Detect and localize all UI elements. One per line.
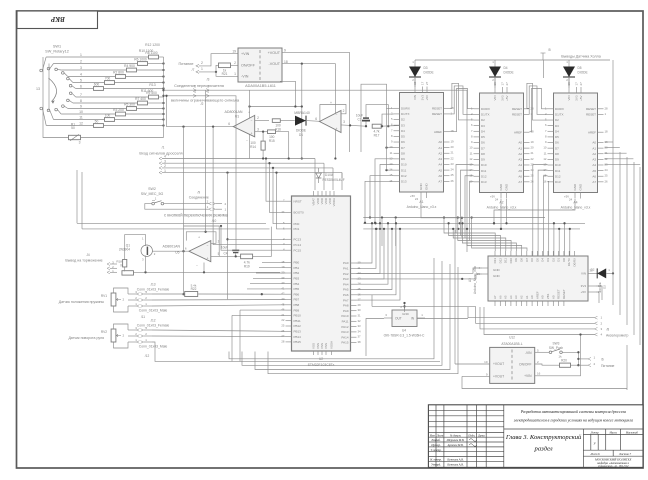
svg-text:SW_Rotary12: SW_Rotary12: [45, 50, 69, 54]
svg-text:Н. контр.: Н. контр.: [429, 458, 442, 461]
svg-text:D0/RX: D0/RX: [481, 107, 490, 111]
IC A1 Arduino_Nano_v3.x: [400, 93, 444, 193]
svg-text:D4: D4: [541, 258, 545, 262]
svg-text:VIN: VIN: [413, 95, 417, 100]
svg-text:R5 300: R5 300: [124, 103, 135, 107]
svg-text:4: 4: [164, 155, 166, 159]
svg-text:Вход сигналов дросселя: Вход сигналов дросселя: [139, 152, 182, 156]
switch contact / wire line 8: [67, 99, 70, 102]
wire y=106.5 aux: [250, 106, 302, 108]
svg-text:/3: /3: [207, 78, 210, 82]
svg-text:18: 18: [605, 130, 609, 134]
svg-text:24: 24: [495, 198, 499, 202]
PA side wires going up to buses: [357, 223, 373, 263]
svg-text:VIN: VIN: [581, 272, 586, 276]
svg-text:10: 10: [389, 145, 393, 149]
switch contact / wire line 6: [69, 84, 72, 87]
svg-text:D1/TX: D1/TX: [567, 258, 571, 266]
svg-text:A1: A1: [525, 295, 529, 299]
U4 OUT wire: [366, 319, 384, 357]
svg-text:D5: D5: [578, 66, 582, 70]
svg-text:Conn_01x03_Female: Conn_01x03_Female: [137, 288, 170, 292]
svg-text:A0: A0: [541, 295, 545, 299]
U5 feedback loop: [186, 232, 216, 244]
svg-text:Датчик поворота руля: Датчик поворота руля: [68, 336, 104, 340]
svg-text:D9: D9: [514, 258, 518, 262]
svg-text:GND: GND: [505, 183, 509, 191]
svg-text:14: 14: [358, 282, 362, 286]
svg-text:D10: D10: [509, 258, 513, 264]
svg-text:D5: D5: [535, 258, 539, 262]
svg-text:AD8001AN: AD8001AN: [225, 110, 243, 114]
svg-text:30: 30: [358, 308, 362, 312]
svg-text:−: −: [196, 264, 198, 268]
vertical x=213: [212, 125, 214, 127]
svg-text:D12: D12: [555, 174, 561, 178]
svg-text:D11: D11: [555, 169, 561, 173]
IC A4 Arduino_Nano_v3.x: [554, 93, 598, 193]
svg-text:22: 22: [451, 156, 455, 160]
svg-text:ON/OFF: ON/OFF: [241, 64, 256, 68]
svg-text:8: 8: [80, 99, 82, 103]
svg-text:20: 20: [531, 146, 535, 150]
svg-text:GND: GND: [499, 183, 503, 191]
svg-text:38: 38: [358, 340, 362, 344]
svg-text:PESD5V0L4UF: PESD5V0L4UF: [323, 178, 345, 182]
svg-text:18: 18: [284, 60, 288, 64]
svg-text:12: 12: [79, 122, 83, 126]
svg-text:PD0: PD0: [294, 222, 300, 226]
svg-text:D2: D2: [555, 118, 559, 122]
right side verticals: [612, 60, 614, 305]
svg-text:GND: GND: [419, 183, 423, 191]
svg-text:26: 26: [605, 179, 609, 183]
svg-text:PB5: PB5: [294, 287, 300, 291]
horizontal feeds y 159-173 right portion: [341, 173, 343, 178]
svg-text:1: 1: [234, 72, 236, 76]
svg-text:600: 600: [94, 83, 100, 87]
svg-text:Литер: Литер: [590, 431, 600, 434]
wire from reset bus down: [466, 251, 468, 253]
svg-text:17: 17: [575, 82, 579, 86]
wire y=90.2: [162, 89, 164, 91]
svg-text:14: 14: [389, 168, 393, 172]
PB pin wires: [262, 261, 286, 263]
svg-text:R15: R15: [269, 139, 275, 143]
A2 D10-D13 wires down-left: [456, 165, 474, 234]
svg-text:A7: A7: [438, 180, 442, 184]
PSU module U6 ADA00A1B5-L611: [238, 48, 282, 82]
svg-text:7: 7: [80, 93, 82, 97]
svg-text:D3: D3: [481, 124, 485, 128]
svg-text:A2: A2: [499, 201, 503, 205]
wire below U5: [203, 263, 205, 273]
svg-text:2: 2: [80, 60, 82, 64]
svg-text:10: 10: [79, 110, 83, 114]
PC13 wire from 227.5: [226, 238, 228, 240]
svg-text:5: 5: [80, 79, 82, 83]
svg-text:−: −: [246, 139, 248, 143]
svg-text:D7: D7: [555, 146, 559, 150]
svg-text:6: 6: [228, 122, 230, 126]
resistor R21 1k: [216, 65, 219, 72]
svg-text:PA1: PA1: [343, 267, 349, 271]
svg-text:A4: A4: [518, 163, 522, 167]
svg-text:/7: /7: [192, 68, 195, 72]
svg-text:PA10: PA10: [341, 314, 348, 318]
svg-text:R14: R14: [250, 145, 256, 149]
svg-text:34: 34: [358, 329, 362, 333]
svg-text:1: 1: [201, 67, 203, 71]
svg-text:PB13: PB13: [294, 330, 302, 334]
PC15 wire: [220, 225, 222, 227]
svg-text:Масса: Масса: [608, 431, 617, 434]
svg-text:19: 19: [232, 50, 236, 54]
svg-text:PB15: PB15: [294, 340, 302, 344]
svg-text:Вывод на торможение: Вывод на торможение: [65, 259, 102, 263]
svg-text:D10: D10: [481, 163, 487, 167]
svg-text:Conn_01x03_Male: Conn_01x03_Male: [139, 309, 168, 313]
outer loop box U5: [184, 226, 220, 256]
svg-text:A6: A6: [518, 174, 522, 178]
svg-text:+VIN: +VIN: [524, 374, 532, 378]
svg-text:U5: U5: [175, 250, 179, 254]
svg-text:ATA00A1B5-L: ATA00A1B5-L: [501, 342, 522, 346]
svg-text:U1: U1: [235, 115, 239, 119]
svg-text:D5: D5: [401, 135, 405, 139]
svg-text:19: 19: [531, 140, 535, 144]
svg-text:39: 39: [281, 276, 285, 280]
svg-text:20: 20: [451, 145, 455, 149]
svg-text:D12: D12: [481, 174, 487, 178]
svg-text:D4: D4: [504, 66, 508, 70]
svg-text:13: 13: [36, 87, 40, 91]
svg-text:1: 1: [194, 85, 196, 89]
svg-text:PA13: PA13: [341, 330, 348, 334]
svg-text:41: 41: [281, 286, 285, 290]
svg-text:17: 17: [501, 82, 505, 86]
svg-text:A2: A2: [592, 152, 596, 156]
svg-text:16: 16: [389, 179, 393, 183]
svg-text:22: 22: [531, 157, 535, 161]
svg-text:D5: D5: [555, 135, 559, 139]
svg-text:R12 1200: R12 1200: [145, 43, 160, 47]
svg-text:+VOUT: +VOUT: [493, 362, 504, 366]
resistor R19 4.7k: [241, 254, 253, 259]
svg-text:10uF: 10uF: [221, 246, 228, 250]
svg-text:A2: A2: [438, 151, 442, 155]
svg-text:R17: R17: [374, 134, 380, 138]
svg-text:1: 1: [207, 90, 209, 94]
A1 bottom stubs to verticals: [421, 198, 462, 237]
svg-text:D2: D2: [401, 118, 405, 122]
svg-text:24: 24: [415, 197, 419, 201]
svg-text:D13: D13: [401, 180, 407, 184]
svg-text:15: 15: [358, 287, 362, 291]
svg-text:AD8001AN: AD8001AN: [162, 245, 180, 249]
svg-text:+5V: +5V: [581, 290, 586, 294]
nested staircase corners into A3 top: [444, 218, 495, 252]
svg-text:11: 11: [79, 116, 83, 120]
svg-text:OUT: OUT: [395, 317, 402, 321]
svg-text:DIODE: DIODE: [504, 71, 514, 75]
svg-text:D3: D3: [424, 66, 428, 70]
svg-text:Питание: Питание: [601, 364, 614, 368]
svg-text:AREF: AREF: [434, 130, 442, 134]
svg-text:+: +: [336, 127, 338, 131]
svg-text:PB0: PB0: [294, 261, 300, 265]
svg-text:700: 700: [105, 77, 111, 81]
svg-text:DIODE: DIODE: [578, 71, 588, 75]
switch contact / wire line 11: [47, 109, 50, 112]
svg-text:12: 12: [543, 157, 547, 161]
svg-text:PA7: PA7: [343, 298, 349, 302]
svg-text:R7 400: R7 400: [135, 97, 146, 101]
resistor R14 vertical: [262, 132, 264, 142]
svg-text:PC14: PC14: [294, 243, 302, 247]
svg-text:SW_MEC_5G: SW_MEC_5G: [141, 192, 164, 196]
svg-text:Архипов М.В.: Архипов М.В.: [447, 444, 464, 447]
PA3/PA4 wires to A3 GND: [357, 268, 483, 273]
op-amp U2: [320, 111, 342, 133]
svg-text:D4: D4: [481, 129, 485, 133]
svg-text:VBAT: VBAT: [312, 198, 316, 206]
svg-text:42: 42: [281, 292, 285, 296]
svg-text:DIODE: DIODE: [296, 129, 306, 133]
serial jog wires A2-A4: [530, 89, 548, 132]
svg-text:PB1: PB1: [294, 266, 300, 270]
svg-text:/10: /10: [212, 219, 217, 223]
svg-text:A3: A3: [518, 158, 522, 162]
svg-text:D1/TX: D1/TX: [481, 113, 490, 117]
svg-text:PA11: PA11: [342, 320, 349, 324]
wires RV2 pins right: [152, 330, 286, 331]
svg-text:PB7: PB7: [294, 298, 300, 302]
svg-text:10: 10: [484, 360, 488, 364]
A4 D10-D13 wires down to A3 top pins: [533, 165, 548, 257]
svg-text:21: 21: [531, 151, 535, 155]
svg-text:A0: A0: [438, 140, 442, 144]
svg-text:5.4k: 5.4k: [191, 283, 197, 287]
svg-text:A4: A4: [438, 163, 442, 167]
wire loop left of U1: [167, 96, 234, 127]
svg-text:26: 26: [531, 179, 535, 183]
svg-text:SW2: SW2: [148, 187, 156, 191]
svg-text:C4: C4: [223, 252, 227, 256]
svg-text:−: −: [251, 119, 253, 123]
svg-text:/6: /6: [601, 358, 604, 362]
svg-text:Датчик положения пружины: Датчик положения пружины: [59, 300, 105, 304]
svg-text:+: +: [248, 111, 250, 115]
svg-text:+: +: [251, 132, 253, 136]
svg-text:RESET: RESET: [512, 113, 522, 117]
svg-text:2: 2: [164, 164, 166, 168]
svg-text:D6: D6: [481, 141, 485, 145]
svg-text:A4: A4: [509, 295, 513, 299]
svg-text:D3: D3: [546, 258, 550, 262]
svg-text:раздел: раздел: [534, 446, 553, 453]
IC A2 Arduino_Nano_v3.x: [480, 93, 524, 193]
bottom nested rectangles: [229, 258, 434, 359]
svg-text:+: +: [198, 236, 200, 240]
junction on U1 apex wire: [182, 125, 184, 127]
switch contact / wire line 12: [40, 107, 43, 110]
serial jog U2 to A1: [361, 84, 394, 152]
wire +VOUT: [282, 53, 350, 152]
svg-text:A1: A1: [419, 200, 423, 204]
svg-text:D8: D8: [401, 151, 405, 155]
svg-text:A0: A0: [530, 295, 534, 299]
svg-text:A2: A2: [518, 152, 522, 156]
svg-text:A0: A0: [518, 141, 522, 145]
wire throttle input 4: [159, 157, 162, 160]
svg-text:ON/OFF: ON/OFF: [519, 363, 531, 367]
svg-text:PC13: PC13: [294, 238, 302, 242]
wire pin1 to R2h and -VIN: [199, 71, 216, 73]
svg-text:J13: J13: [150, 283, 155, 287]
diode D2: [588, 272, 597, 274]
svg-text:22: 22: [281, 318, 285, 322]
svg-text:D12: D12: [498, 258, 502, 264]
svg-text:27: 27: [425, 81, 429, 85]
svg-text:D7: D7: [481, 146, 485, 150]
svg-text:4: 4: [80, 73, 82, 77]
svg-text:A5: A5: [438, 168, 442, 172]
svg-text:PB11: PB11: [294, 319, 301, 323]
svg-text:D2: D2: [603, 285, 607, 289]
svg-text:GND: GND: [579, 183, 583, 191]
svg-text:PA15: PA15: [341, 341, 348, 345]
svg-text:26: 26: [281, 329, 285, 333]
svg-text:PC15: PC15: [294, 248, 302, 252]
svg-text:Arduino_Nano_v3.x: Arduino_Nano_v3.x: [561, 206, 591, 210]
svg-text:PD1: PD1: [294, 227, 300, 231]
svg-text:11: 11: [390, 151, 393, 155]
wire U1 pin2 out: [255, 120, 269, 122]
svg-text:6: 6: [80, 85, 82, 89]
svg-text:BOOT0: BOOT0: [294, 211, 305, 215]
svg-text:A6: A6: [498, 295, 502, 299]
wire -VOUT: [282, 64, 335, 159]
wire U2 fb loop: [320, 105, 346, 122]
svg-text:RV2: RV2: [101, 330, 107, 334]
svg-text:Кузнецов А.В.: Кузнецов А.В.: [446, 458, 464, 461]
svg-text:3: 3: [164, 159, 166, 163]
svg-text:PB14: PB14: [294, 335, 302, 339]
svg-text:A7: A7: [592, 180, 596, 184]
wires PSU2 left: [455, 363, 490, 365]
svg-text:PB12: PB12: [294, 324, 302, 328]
svg-text:+VIN: +VIN: [241, 52, 250, 56]
svg-text:электродвигателем в городских: электродвигателем в городских условиях н…: [514, 419, 633, 423]
svg-text:1k: 1k: [558, 355, 562, 359]
svg-text:D6: D6: [555, 141, 559, 145]
svg-text:Шершнев М.В.: Шершнев М.В.: [446, 439, 465, 442]
svg-text:10: 10: [543, 146, 547, 150]
svg-text:AREF: AREF: [588, 130, 596, 134]
svg-text:D3: D3: [401, 123, 405, 127]
svg-text:Изм: Изм: [429, 434, 435, 437]
svg-text:19: 19: [451, 140, 455, 144]
svg-text:SW_Push: SW_Push: [549, 346, 563, 350]
svg-text:+VOUT: +VOUT: [493, 375, 504, 379]
diode D3: [414, 60, 416, 67]
svg-text:29: 29: [358, 303, 362, 307]
svg-text:25: 25: [281, 324, 285, 328]
svg-text:43: 43: [281, 297, 285, 301]
svg-text:MBRA140: MBRA140: [294, 111, 310, 115]
svg-text:D9: D9: [481, 158, 485, 162]
svg-text:PB10: PB10: [294, 314, 302, 318]
svg-text:6: 6: [315, 117, 317, 121]
switch contact / wire line 4: [62, 72, 65, 75]
svg-text:R21: R21: [222, 72, 228, 76]
svg-text:с кнопкой переключения режима: с кнопкой переключения режима: [164, 213, 229, 218]
svg-text:A5: A5: [592, 169, 596, 173]
svg-text:Утверд.: Утверд.: [431, 463, 441, 466]
svg-text:RESET: RESET: [586, 113, 596, 117]
svg-text:+5V: +5V: [505, 96, 509, 101]
svg-text:D11: D11: [401, 168, 407, 172]
svg-text:19: 19: [281, 265, 285, 269]
svg-text:D11: D11: [504, 258, 508, 263]
svg-text:D9: D9: [401, 157, 405, 161]
svg-text:A4: A4: [592, 163, 596, 167]
svg-text:Т. контр.: Т. контр.: [431, 449, 442, 452]
svg-text:A6: A6: [592, 174, 596, 178]
svg-text:18: 18: [451, 129, 455, 133]
svg-text:R1: R1: [71, 122, 75, 126]
switch contact / wire line 1: [40, 69, 43, 72]
wire RV2 bottom long: [152, 342, 440, 361]
svg-text:15: 15: [389, 173, 393, 177]
resistor R20: [535, 364, 559, 365]
svg-text:Разработка автоматизированной: Разработка автоматизированной системы ко…: [520, 409, 626, 414]
svg-text:−: −: [336, 113, 338, 117]
svg-text:D0/RX: D0/RX: [555, 107, 564, 111]
svg-text:11: 11: [544, 151, 547, 155]
svg-text:DIODE: DIODE: [598, 282, 602, 292]
svg-text:D10A: D10A: [325, 173, 334, 177]
buses below arduinos y=223/228: [77, 222, 266, 224]
bus0 y=217.5: [363, 217, 545, 219]
svg-text:D8: D8: [481, 152, 485, 156]
svg-text:17: 17: [358, 298, 362, 302]
svg-text:24: 24: [451, 168, 455, 172]
wire throttle input 2: [159, 166, 162, 169]
svg-text:−: −: [207, 244, 209, 248]
resistor R23 on J4 pin1 line: [110, 271, 117, 273]
svg-text:PB8: PB8: [294, 303, 300, 307]
svg-text:-VIN: -VIN: [525, 351, 532, 355]
nested loops left of STM32: [266, 159, 286, 202]
svg-text:A5: A5: [518, 169, 522, 173]
svg-text:Дата: Дата: [477, 434, 485, 437]
svg-text:Arduino_Nano_v3.x: Arduino_Nano_v3.x: [473, 266, 477, 294]
svg-text:45: 45: [281, 302, 285, 306]
svg-text:2N3904: 2N3904: [119, 248, 130, 252]
svg-text:R2 800: R2 800: [113, 71, 124, 75]
svg-text:21: 21: [281, 313, 285, 317]
svg-text:/8: /8: [607, 328, 610, 332]
svg-text:D3: D3: [555, 124, 559, 128]
svg-text:U12: U12: [509, 336, 515, 340]
svg-text:Питание: Питание: [179, 62, 194, 66]
svg-text:R11 600: R11 600: [141, 89, 154, 93]
serial jog wires A1-A2: [450, 89, 474, 132]
svg-text:3V3: 3V3: [575, 95, 579, 101]
svg-text:16: 16: [358, 292, 362, 296]
